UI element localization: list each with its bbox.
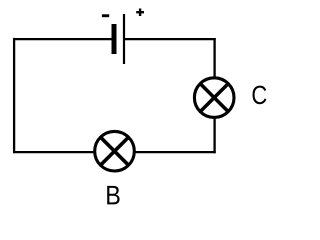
wire right side [213, 38, 215, 153]
battery B1 positive plate (long thin bar) [123, 14, 125, 64]
wire bottom [13, 151, 216, 153]
wire top-left (battery negative terminal to left corner) [13, 38, 113, 40]
lamp C (circle with X) [194, 78, 234, 118]
battery minus label [102, 14, 109, 17]
label B [107, 186, 119, 205]
label C [253, 86, 267, 105]
wire left side [13, 38, 15, 153]
wire top-right (battery positive terminal to right corner) [124, 38, 216, 40]
battery plus label [136, 9, 144, 17]
battery B1 negative plate (short thick bar) [112, 24, 117, 54]
lamp B (circle with X) [95, 131, 135, 171]
